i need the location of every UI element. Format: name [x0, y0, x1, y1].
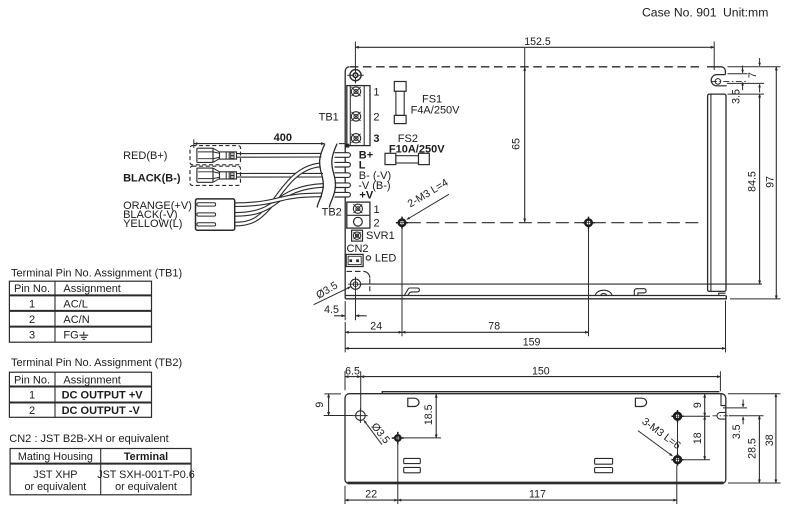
svg-text:7: 7 — [747, 72, 759, 78]
dim 150 — [361, 365, 721, 391]
dim 9 (right) — [684, 394, 711, 416]
dim 78 — [402, 321, 589, 333]
leader 3-M3 L=6 — [638, 415, 683, 456]
inner flange dashed corner (bottom-left) — [347, 270, 364, 272]
svg-text:or equivalent: or equivalent — [115, 481, 177, 493]
chassis flange line — [361, 283, 762, 285]
dim 6.5 — [345, 365, 361, 410]
svg-text:18: 18 — [692, 432, 704, 444]
title: Case No. 901 Unit:mm — [642, 5, 768, 19]
svg-text:Unit:mm: Unit:mm — [723, 5, 768, 19]
case top-right corner — [707, 67, 725, 75]
svg-text:LED: LED — [375, 252, 396, 264]
mounting hole 2-M3 (right) — [582, 217, 594, 229]
svg-text:9: 9 — [314, 402, 326, 408]
fuse FS1 — [394, 82, 406, 124]
dim 9 (left) — [314, 394, 353, 416]
phi3.5 hole (bottom view) — [353, 408, 368, 423]
wire L (yellow) — [235, 165, 321, 224]
TB1 screw 2 — [351, 112, 360, 121]
svg-text:3.5: 3.5 — [731, 424, 743, 439]
M3 hole (right bottom) — [671, 454, 683, 466]
TB1 corner mark — [345, 144, 349, 148]
wire B- — [236, 173, 323, 178]
table TB1 — [9, 281, 151, 342]
svg-text:18.5: 18.5 — [423, 404, 435, 425]
svg-text:TB1: TB1 — [319, 112, 339, 124]
svg-text:97: 97 — [765, 176, 777, 188]
svg-text:3.5: 3.5 — [730, 89, 742, 104]
svg-text:Assignment: Assignment — [63, 283, 120, 295]
mounting hole ext line 2 — [588, 228, 590, 336]
svg-text:78: 78 — [488, 321, 500, 333]
dim 400 (wire length) — [194, 132, 345, 148]
mounting hole ext line 1 — [401, 228, 403, 336]
svg-text:159: 159 — [523, 337, 541, 349]
svg-text:Terminal Pin No. Assignment (T: Terminal Pin No. Assignment (TB2) — [11, 357, 182, 369]
svg-text:400: 400 — [274, 132, 292, 144]
svg-text:65: 65 — [510, 138, 522, 150]
dashed outline around faston 1 — [190, 146, 241, 165]
case left edge — [345, 67, 349, 299]
svg-text:FG: FG — [63, 330, 78, 342]
svg-text:2: 2 — [374, 217, 380, 229]
svg-text:JST SXH-001T-P0.6: JST SXH-001T-P0.6 — [97, 469, 195, 481]
flange lip line — [382, 392, 719, 394]
dim 117 — [398, 489, 677, 501]
dim 152.5 — [355, 36, 714, 70]
svg-text:CN2 : JST B2B-XH or equivalent: CN2 : JST B2B-XH or equivalent — [9, 433, 168, 445]
svg-text:RED(B+): RED(B+) — [123, 150, 167, 162]
svg-text:6.5: 6.5 — [345, 365, 360, 377]
svg-text:28.5: 28.5 — [747, 438, 759, 459]
svg-text:1: 1 — [374, 204, 380, 216]
svg-text:1: 1 — [373, 87, 379, 99]
D-slot left — [408, 398, 419, 406]
cable break wavy lines — [317, 144, 325, 208]
svg-text:BLACK(B-): BLACK(B-) — [123, 172, 181, 184]
svg-text:Terminal: Terminal — [124, 451, 168, 463]
dim 18.5 — [403, 394, 441, 438]
dim 38 — [728, 394, 781, 483]
TB2 screw 1 — [353, 204, 362, 213]
cover hook hole — [715, 79, 721, 85]
dim 24 — [345, 321, 402, 333]
svg-text:2: 2 — [29, 314, 35, 326]
svg-text:CN2: CN2 — [347, 243, 369, 255]
trimpot SVR1 — [352, 230, 363, 241]
bottom edge (thick) — [348, 482, 724, 485]
svg-text:84.5: 84.5 — [746, 171, 758, 192]
bottom plate top line — [345, 295, 725, 297]
svg-text:Mating Housing: Mating Housing — [18, 451, 93, 463]
svg-text:+V: +V — [359, 190, 373, 202]
fuse FS2 — [385, 153, 429, 164]
M3 hole (right top) — [671, 410, 683, 422]
svg-text:9: 9 — [692, 402, 704, 408]
leader phi3.5 (main) — [314, 279, 351, 304]
dim 97 — [730, 67, 781, 299]
svg-text:117: 117 — [529, 489, 546, 501]
leader phi3.5 (bottom view) — [364, 420, 392, 446]
svg-text:152.5: 152.5 — [524, 36, 551, 48]
wire B+ — [236, 153, 321, 158]
wire color labels — [123, 150, 192, 230]
svg-text:DC OUTPUT +V: DC OUTPUT +V — [62, 390, 144, 402]
foot tab 2 (dome) — [595, 290, 612, 295]
svg-text:F10A/250V: F10A/250V — [389, 144, 445, 156]
table CN2 — [10, 449, 195, 495]
case top edge (dashed) — [350, 66, 703, 68]
CN2 mating housing connector — [196, 199, 235, 230]
bar inner line — [710, 94, 712, 291]
svg-text:Pin No.: Pin No. — [14, 283, 50, 295]
M3 hole (bottom left area) — [392, 432, 404, 444]
lip right tab — [721, 394, 726, 406]
dim 159 — [345, 301, 725, 353]
right vertical bar (cover edge) — [708, 94, 726, 291]
hook center line (dash-dot) — [711, 80, 749, 82]
ground symbol — [79, 332, 88, 340]
faston terminal (RED B+) — [197, 148, 237, 162]
leader 2-M3 L=4 — [406, 177, 451, 220]
faston terminal (BLACK B-) — [197, 168, 237, 182]
terminal block TB2 — [347, 202, 370, 228]
foot tab 1 — [404, 288, 419, 296]
svg-text:AC/L: AC/L — [63, 299, 87, 311]
wire +V (orange) — [235, 195, 322, 205]
svg-text:1: 1 — [29, 390, 35, 402]
dim 22 — [345, 443, 677, 504]
vent slots right — [595, 458, 613, 464]
svg-text:Pin No.: Pin No. — [14, 374, 50, 386]
svg-text:22: 22 — [365, 489, 377, 501]
svg-text:AC/N: AC/N — [63, 314, 89, 326]
chassis corner hole (phi 3.5, bottom-left) — [348, 277, 363, 292]
svg-text:YELLOW(L): YELLOW(L) — [123, 218, 182, 230]
notch on right edge — [717, 413, 726, 420]
TB2 hole 2 — [354, 217, 363, 226]
svg-text:SVR1: SVR1 — [366, 230, 395, 242]
foot tab 3 — [634, 289, 646, 296]
dim 84.5 — [728, 94, 765, 284]
LED indicator — [366, 256, 370, 260]
corner screw (top-left) — [347, 67, 363, 83]
svg-text:2: 2 — [29, 405, 35, 417]
wire end sleeves at case entry — [335, 153, 351, 158]
svg-text:3: 3 — [29, 330, 35, 342]
terminal block TB1 — [347, 86, 370, 146]
dim 18 — [684, 416, 711, 460]
svg-text:24: 24 — [370, 321, 382, 333]
dim 65 — [510, 48, 524, 222]
dashed outline around faston 2 — [190, 166, 241, 185]
svg-text:JST XHP: JST XHP — [33, 469, 77, 481]
dim 4.5 — [324, 292, 367, 321]
mounting holes center line (dashed) — [408, 222, 701, 224]
svg-text:DC OUTPUT -V: DC OUTPUT -V — [62, 405, 141, 417]
svg-text:2: 2 — [373, 112, 379, 124]
dim 28.5 — [747, 416, 760, 483]
svg-text:1: 1 — [29, 299, 35, 311]
svg-text:4.5: 4.5 — [324, 304, 339, 316]
dim 3.5 (top right) — [728, 66, 748, 104]
bottom plate bottom line — [345, 296, 726, 299]
svg-text:3: 3 — [373, 133, 379, 145]
table TB2 — [9, 372, 151, 417]
TB1 screw 3 — [351, 134, 360, 143]
D-slot right — [635, 398, 646, 406]
bottom view outline — [345, 394, 726, 484]
svg-text:or equivalent: or equivalent — [24, 481, 86, 493]
svg-text:Case No. 901: Case No. 901 — [642, 5, 717, 19]
component labels — [319, 87, 461, 265]
line between right holes — [677, 422, 679, 456]
svg-text:F4A/250V: F4A/250V — [411, 104, 461, 116]
svg-text:Terminal Pin No. Assignment (T: Terminal Pin No. Assignment (TB1) — [11, 268, 182, 280]
cover edge hook (top right) — [711, 75, 727, 86]
svg-text:Assignment: Assignment — [63, 374, 120, 386]
vent slots left — [404, 458, 421, 463]
dim 7 — [727, 58, 781, 93]
svg-text:TB2: TB2 — [322, 207, 342, 219]
bar foot step — [719, 293, 726, 295]
dim 3.5 (bottom view) — [723, 400, 764, 440]
connector CN2 — [346, 254, 363, 266]
wire -V (black) — [235, 185, 324, 214]
svg-text:150: 150 — [532, 365, 550, 377]
svg-text:38: 38 — [764, 434, 776, 446]
mounting hole 2-M3 (left) — [396, 217, 408, 229]
TB1 screw 1 — [351, 87, 360, 96]
